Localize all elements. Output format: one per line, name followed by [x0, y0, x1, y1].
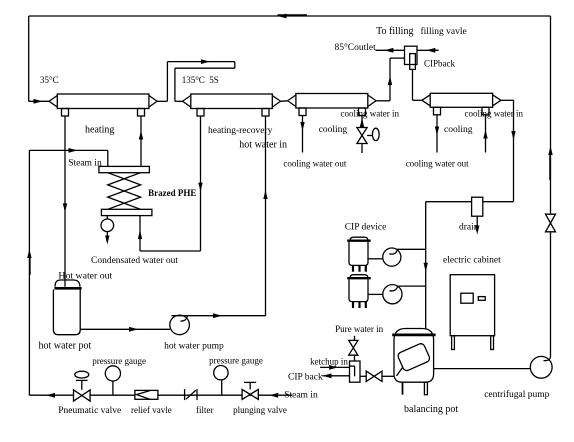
svg-text:Pure water in: Pure water in: [335, 324, 383, 334]
svg-text:hot water in: hot water in: [239, 140, 287, 151]
svg-text:hot water pump: hot water pump: [164, 342, 224, 352]
svg-text:pressure gauge: pressure gauge: [92, 356, 146, 366]
svg-text:heating: heating: [85, 125, 114, 136]
svg-text:cooling water out: cooling water out: [283, 159, 346, 169]
svg-text:drain: drain: [459, 223, 479, 233]
svg-text:filling vavle: filling vavle: [421, 26, 467, 37]
svg-text:135°C 5S: 135°C 5S: [182, 75, 219, 85]
svg-text:cooling: cooling: [319, 125, 348, 135]
svg-text:filter: filter: [196, 405, 214, 415]
svg-text:cooling water in: cooling water in: [465, 109, 524, 119]
svg-text:heating-recovery: heating-recovery: [208, 126, 273, 136]
svg-text:Hot water out: Hot water out: [58, 271, 112, 282]
svg-text:balancing pot: balancing pot: [404, 404, 458, 415]
svg-text:ketchup in: ketchup in: [310, 357, 348, 367]
svg-text:hot water pot: hot water pot: [39, 341, 92, 352]
svg-text:85°Coutlet: 85°Coutlet: [335, 42, 377, 53]
svg-text:35°C: 35°C: [40, 75, 59, 85]
svg-text:plunging valve: plunging valve: [233, 405, 287, 415]
svg-text:relief vavle: relief vavle: [131, 405, 172, 415]
svg-text:centrifugal pump: centrifugal pump: [484, 389, 549, 400]
svg-text:CIP back: CIP back: [288, 372, 323, 382]
svg-text:Brazed PHE: Brazed PHE: [148, 188, 196, 198]
svg-text:Pneumatic valve: Pneumatic valve: [58, 406, 121, 416]
svg-text:CIPback: CIPback: [424, 58, 455, 68]
svg-text:cooling: cooling: [444, 125, 473, 135]
svg-text:electric cabinet: electric cabinet: [443, 256, 501, 266]
svg-text:To filling: To filling: [376, 26, 413, 37]
svg-text:CIP device: CIP device: [345, 223, 387, 233]
svg-text:Condensated water out: Condensated water out: [91, 256, 178, 266]
svg-text:pressure gauge: pressure gauge: [209, 356, 263, 366]
svg-text:Steam in: Steam in: [284, 390, 318, 400]
svg-text:cooling water in: cooling water in: [341, 109, 400, 119]
svg-text:cooling water out: cooling water out: [406, 159, 469, 169]
svg-text:Steam in: Steam in: [68, 158, 102, 168]
